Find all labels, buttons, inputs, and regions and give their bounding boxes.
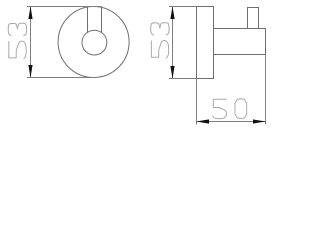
front view: hook arm end circle	[82, 30, 107, 55]
dim 53 front: dimension line	[30, 7, 32, 78]
dim 53 side: bottom arrowhead	[170, 66, 174, 79]
dim text 53 side: digit 3 (rotated)	[151, 23, 169, 35]
dim 53 front: top arrowhead	[28, 6, 32, 19]
dim text 53 front: digit 5 (rotated)	[9, 41, 26, 58]
dim 50: right arrowhead	[253, 119, 266, 123]
front view: peg right edge line	[101, 7, 103, 33]
dim text 50: digit 0	[235, 99, 247, 118]
dim 50: dimension line	[197, 121, 266, 123]
side view: peg rectangle	[248, 8, 259, 29]
side view: arm rectangle	[214, 29, 266, 55]
dim 50: right extension line	[265, 55, 267, 125]
dim 53 front: bottom arrowhead	[28, 65, 32, 78]
dim 50: left arrowhead	[196, 119, 209, 123]
front view: outer plate circle	[58, 7, 129, 78]
side view: wall plate rectangle	[197, 7, 214, 79]
dim text 53 side: digit 5 (rotated)	[151, 41, 168, 58]
dim 53 side: top arrowhead	[170, 6, 174, 19]
front view: peg left edge line	[87, 7, 89, 33]
dim 53 side: bottom extension line	[169, 78, 197, 80]
dim 53 side: dimension line	[172, 7, 174, 79]
dim text 50: digit 5	[213, 99, 227, 118]
dim text 53 front: digit 3 (rotated)	[8, 23, 26, 35]
dim 50: left extension line	[196, 79, 198, 125]
dim 53 side: top extension line	[169, 6, 197, 8]
dim 53 front: top extension line	[27, 6, 102, 8]
dim 53 front: bottom extension line	[27, 77, 95, 79]
